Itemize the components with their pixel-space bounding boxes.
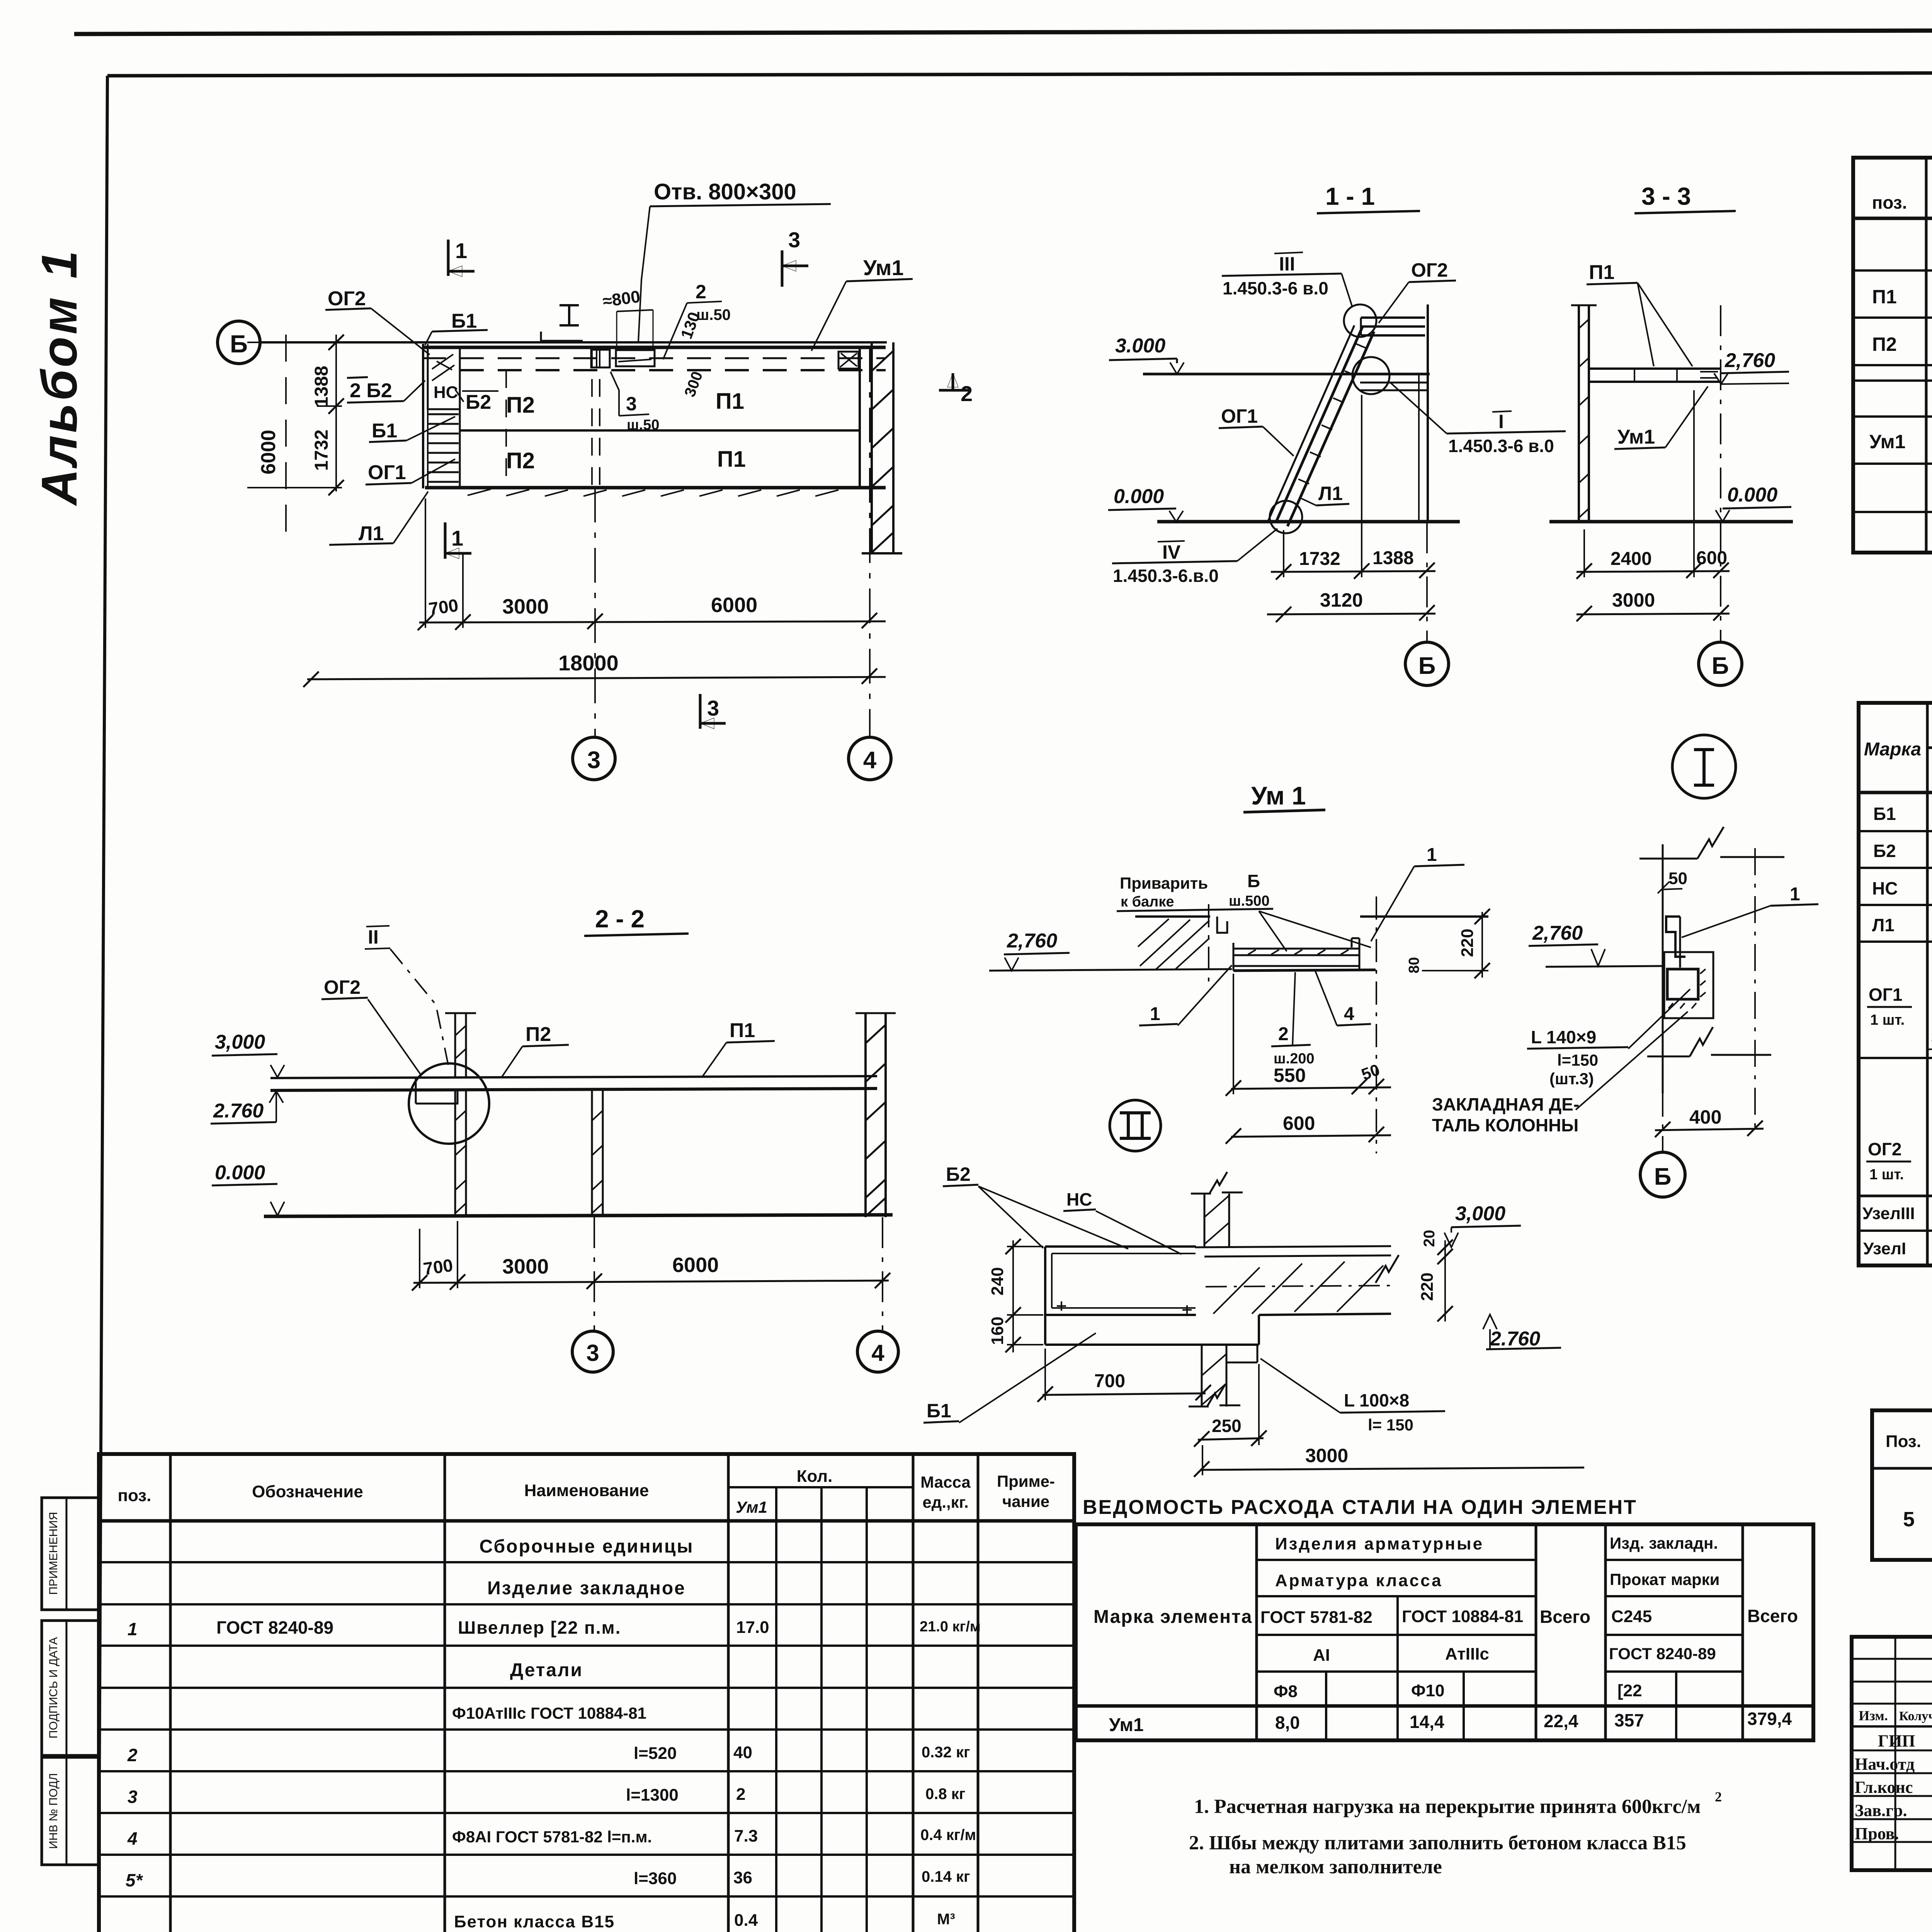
dim 220 80 right — [1481, 912, 1483, 978]
svg-text:3: 3 — [128, 1787, 138, 1807]
platform top — [1361, 318, 1425, 335]
dim 20 220 right — [1444, 1240, 1446, 1321]
svg-text:2400: 2400 — [1611, 549, 1652, 569]
axis circle 3 sec22 — [572, 1331, 613, 1372]
dim 550 50 — [1231, 1087, 1391, 1089]
detail circle I — [1672, 735, 1736, 798]
svg-text:1.450.3-6 в.0: 1.450.3-6 в.0 — [1448, 436, 1554, 456]
svg-text:2 Б2: 2 Б2 — [350, 379, 392, 402]
svg-text:Приварить: Приварить — [1120, 874, 1208, 892]
angle L100x8 piece — [1226, 1345, 1257, 1362]
svg-text:l=360: l=360 — [634, 1869, 677, 1888]
lower column hatched — [1201, 1345, 1203, 1406]
svg-text:УзелIII: УзелIII — [1862, 1204, 1915, 1223]
SECTION11 — [1108, 182, 1566, 685]
svg-text:3: 3 — [788, 228, 800, 252]
svg-text:6000: 6000 — [257, 430, 280, 474]
svg-text:ОГ1: ОГ1 — [368, 461, 406, 484]
svg-text:600: 600 — [1283, 1112, 1315, 1134]
svg-text:Б: Б — [1654, 1163, 1672, 1190]
svg-text:L 140×9: L 140×9 — [1531, 1027, 1596, 1047]
ladder rail left — [1268, 325, 1354, 521]
svg-text:1388: 1388 — [1372, 548, 1414, 568]
svg-text:3,000: 3,000 — [1455, 1202, 1505, 1225]
svg-text:3: 3 — [707, 696, 719, 720]
svg-text:2: 2 — [736, 1785, 745, 1804]
svg-text:160: 160 — [988, 1316, 1007, 1345]
svg-text:П2: П2 — [526, 1023, 551, 1046]
top break line — [1639, 857, 1784, 859]
svg-text:Ум1: Ум1 — [1109, 1715, 1144, 1735]
svg-text:Ум1: Ум1 — [736, 1498, 767, 1516]
svg-text:1. Расчетная нагрузка на перек: 1. Расчетная нагрузка на перекрытие прин… — [1194, 1796, 1701, 1818]
svg-text:ГОСТ 10884-81: ГОСТ 10884-81 — [1402, 1607, 1523, 1626]
section mark 1 top — [447, 240, 450, 276]
svg-text:80: 80 — [1406, 957, 1422, 973]
column lines — [1926, 703, 1929, 1265]
lower landing lines — [1360, 383, 1429, 390]
svg-text:700: 700 — [422, 1255, 454, 1279]
dim line 1732 1388 — [1271, 571, 1435, 572]
svg-text:2 - 2: 2 - 2 — [595, 905, 645, 933]
svg-text:ПРИМЕНЕНИЯ: ПРИМЕНЕНИЯ — [47, 1512, 60, 1595]
NS box — [428, 347, 460, 409]
svg-text:Пров.: Пров. — [1855, 1824, 1899, 1843]
svg-text:НС: НС — [1066, 1189, 1092, 1209]
svg-text:5: 5 — [1903, 1508, 1915, 1531]
svg-text:1: 1 — [455, 238, 467, 263]
vedomost table outer — [1859, 703, 1932, 1265]
svg-text:L 100×8: L 100×8 — [1344, 1390, 1409, 1410]
svg-text:36: 36 — [733, 1868, 752, 1887]
bottom-left table outer — [99, 1454, 1074, 1932]
svg-text:1: 1 — [1790, 884, 1800, 905]
top inner frame line — [107, 72, 1932, 76]
left column above slab — [454, 1013, 456, 1078]
plan top dashed edge — [422, 357, 886, 359]
svg-text:1: 1 — [1150, 1004, 1160, 1024]
embed plate box — [1664, 952, 1713, 1018]
channel Um1 — [1217, 917, 1227, 933]
axis circle 4 sec22 — [857, 1331, 898, 1372]
bottom beam B1 — [1045, 1315, 1259, 1345]
ground line sec22 — [264, 1215, 893, 1216]
header lines — [1927, 747, 1932, 749]
column second line — [1418, 374, 1420, 522]
detail circle top — [1344, 304, 1376, 337]
left stamp box perv primenenija — [42, 1498, 99, 1610]
SECTION22 — [211, 905, 898, 1372]
svg-text:Бетон класса В15: Бетон класса В15 — [454, 1912, 615, 1931]
svg-text:1.450.3-6 в.0: 1.450.3-6 в.0 — [1223, 278, 1328, 298]
svg-text:3: 3 — [587, 747, 600, 774]
svg-text:ИНВ № ПОДЛ: ИНВ № ПОДЛ — [47, 1773, 60, 1849]
beam block hatched — [1135, 915, 1210, 918]
svg-text:Л1: Л1 — [1318, 483, 1343, 504]
section mark 1 bottom — [444, 522, 447, 559]
uzel mark box — [591, 350, 610, 367]
slab soffit — [1259, 1314, 1391, 1315]
svg-text:l=520: l=520 — [634, 1744, 677, 1763]
svg-text:3000: 3000 — [1305, 1445, 1348, 1466]
axis circle B — [218, 321, 260, 364]
stair stringers L1 — [1276, 327, 1362, 522]
svg-text:1 шт.: 1 шт. — [1869, 1167, 1904, 1183]
channel top beam B2 — [1045, 1247, 1196, 1315]
dim 600 — [1231, 1135, 1391, 1137]
svg-text:1 шт.: 1 шт. — [1870, 1012, 1905, 1028]
svg-text:Б2: Б2 — [946, 1163, 971, 1185]
svg-text:Б1: Б1 — [372, 420, 397, 442]
svg-text:1: 1 — [128, 1619, 138, 1639]
svg-text:6000: 6000 — [711, 594, 757, 617]
slab line sec22 — [270, 1076, 877, 1078]
left dim chain 1388 1732 — [335, 335, 337, 492]
svg-text:0.32 кг: 0.32 кг — [922, 1744, 970, 1761]
axis circle B uzel1 — [1640, 1152, 1685, 1197]
axis dashed right — [1754, 848, 1756, 1132]
svg-text:II: II — [368, 926, 379, 948]
svg-text:Ф8АI ГОСТ 5781-82 l=п.м.: Ф8АI ГОСТ 5781-82 l=п.м. — [452, 1828, 652, 1846]
axis line sec33 — [1720, 305, 1721, 642]
VEDELEM — [1859, 675, 1932, 1265]
svg-text:Прокат марки: Прокат марки — [1610, 1570, 1719, 1588]
ground line 1-1 — [1157, 520, 1460, 524]
svg-text:Ум1: Ум1 — [1617, 426, 1655, 448]
svg-text:Изделия арматурные: Изделия арматурные — [1275, 1534, 1484, 1553]
top outer border line — [74, 29, 1932, 34]
svg-text:0.000: 0.000 — [1727, 484, 1777, 506]
row lines — [1859, 830, 1932, 832]
column axis line — [1427, 304, 1429, 522]
svg-text:Марка: Марка — [1864, 739, 1921, 760]
title block outer — [1852, 1637, 1932, 1870]
svg-text:≈800: ≈800 — [602, 287, 641, 311]
svg-text:3,000: 3,000 — [215, 1031, 265, 1053]
svg-text:4: 4 — [871, 1340, 884, 1366]
svg-text:20: 20 — [1421, 1230, 1438, 1247]
svg-text:50: 50 — [1359, 1060, 1382, 1083]
svg-text:ГОСТ 8240-89: ГОСТ 8240-89 — [1609, 1645, 1716, 1663]
svg-text:Б: Б — [1418, 653, 1436, 679]
right wall sec22 — [864, 1013, 867, 1217]
svg-text:УзелI: УзелI — [1863, 1239, 1906, 1258]
svg-text:379,4: 379,4 — [1747, 1709, 1792, 1729]
svg-text:Нач.отд: Нач.отд — [1855, 1755, 1915, 1774]
svg-text:Б: Б — [1712, 653, 1729, 679]
uzel I mark above plan — [560, 305, 579, 325]
svg-text:220: 220 — [1458, 929, 1477, 957]
svg-text:Б2: Б2 — [466, 391, 491, 413]
svg-text:2. Шбы между плитами заполнить: 2. Шбы между плитами заполнить бетоном к… — [1189, 1832, 1686, 1854]
dim line 3120 — [1267, 614, 1435, 614]
svg-text:4: 4 — [1344, 1004, 1354, 1024]
svg-text:Б2: Б2 — [1873, 841, 1896, 861]
svg-text:НС: НС — [434, 383, 458, 402]
UZEL2 — [923, 1100, 1584, 1477]
axis circle B sec33 — [1699, 642, 1742, 685]
svg-text:17.0: 17.0 — [736, 1618, 769, 1637]
slab P1 sec33 — [1589, 369, 1720, 382]
svg-text:I: I — [1498, 411, 1504, 432]
svg-text:к балке: к балке — [1121, 894, 1174, 910]
svg-text:2,760: 2,760 — [1007, 930, 1057, 952]
svg-text:1.450.3-6.в.0: 1.450.3-6.в.0 — [1113, 566, 1219, 586]
upper column hatched — [1204, 1194, 1206, 1247]
header internal lines — [728, 1486, 913, 1488]
column lines — [169, 1454, 172, 1932]
svg-text:Масса: Масса — [920, 1473, 971, 1491]
svg-text:0.000: 0.000 — [215, 1162, 265, 1184]
svg-text:8,0: 8,0 — [1275, 1713, 1300, 1733]
axis line B — [260, 341, 887, 344]
BOTTOMTABLE — [99, 1454, 1074, 1932]
svg-text:700: 700 — [427, 595, 459, 619]
axis drop uzel1 — [1662, 1094, 1663, 1152]
svg-text:ГИП: ГИП — [1878, 1731, 1915, 1750]
SECTION33 — [1549, 182, 1793, 685]
axis drop to circle B — [1426, 522, 1428, 642]
svg-text:Детали: Детали — [510, 1660, 583, 1680]
svg-text:Гл.конс: Гл.конс — [1855, 1778, 1913, 1797]
plan bottom edge — [425, 486, 886, 490]
svg-text:2.760: 2.760 — [213, 1100, 264, 1122]
svg-text:2: 2 — [1278, 1024, 1289, 1044]
svg-text:ОГ2: ОГ2 — [1411, 259, 1448, 281]
svg-text:Марка элемента: Марка элемента — [1094, 1607, 1252, 1627]
left grid verticals — [1895, 1637, 1896, 1870]
svg-text:2,760: 2,760 — [1725, 349, 1775, 372]
svg-text:50: 50 — [1668, 869, 1687, 888]
svg-text:ЗАКЛАДНАЯ ДЕ-: ЗАКЛАДНАЯ ДЕ- — [1432, 1094, 1579, 1114]
svg-text:3000: 3000 — [502, 1255, 549, 1278]
axis drops sec22 — [594, 1217, 595, 1330]
svg-text:ВЕДОМОСТЬ РАСХОДА СТАЛИ НА: ВЕДОМОСТЬ РАСХОДА СТАЛИ НА ОДИН ЭЛЕМЕНТ — [1083, 1496, 1637, 1519]
svg-text:Обозначение: Обозначение — [252, 1482, 363, 1501]
svg-text:Всего: Всего — [1540, 1607, 1590, 1627]
svg-text:0.14 кг: 0.14 кг — [922, 1868, 970, 1885]
svg-text:(шт.3): (шт.3) — [1549, 1070, 1594, 1088]
middle column — [591, 1090, 593, 1216]
svg-text:3: 3 — [586, 1340, 599, 1366]
svg-text:3120: 3120 — [1320, 589, 1363, 611]
svg-text:Ф8: Ф8 — [1274, 1682, 1298, 1701]
svg-text:Ум1: Ум1 — [1869, 431, 1905, 452]
slab top line — [1204, 1255, 1391, 1257]
svg-text:Арматура класса: Арматура класса — [1275, 1571, 1443, 1590]
svg-text:7.3: 7.3 — [734, 1827, 758, 1845]
svg-text:250: 250 — [1212, 1416, 1242, 1436]
svg-text:300: 300 — [681, 369, 706, 399]
stair enclosure walls — [422, 344, 424, 488]
svg-text:Кол.: Кол. — [797, 1467, 833, 1486]
svg-text:4: 4 — [863, 747, 877, 774]
svg-text:ПОДПИСЬ И ДАТА: ПОДПИСЬ И ДАТА — [47, 1637, 60, 1739]
svg-text:АтIIIс: АтIIIс — [1445, 1645, 1489, 1663]
svg-text:Ум1: Ум1 — [863, 255, 904, 280]
svg-text:2: 2 — [1715, 1789, 1722, 1804]
svg-text:357: 357 — [1614, 1710, 1644, 1730]
svg-text:Б1: Б1 — [927, 1400, 951, 1422]
left stamp box podpis i data — [42, 1621, 99, 1755]
left dim 6000 — [285, 335, 287, 539]
svg-text:21.0 кг/м: 21.0 кг/м — [920, 1619, 981, 1635]
svg-text:Л1: Л1 — [1872, 915, 1895, 935]
svg-text:1732: 1732 — [311, 430, 332, 471]
svg-text:ТАЛЬ КОЛОННЫ: ТАЛЬ КОЛОННЫ — [1432, 1115, 1578, 1135]
TITLEBLOCK — [1852, 1637, 1932, 1918]
svg-text:поз.: поз. — [118, 1486, 151, 1505]
axis 4 drop line — [869, 347, 871, 737]
svg-text:П1: П1 — [1589, 261, 1614, 284]
left column below slab — [454, 1090, 456, 1216]
svg-text:Поз.: Поз. — [1886, 1432, 1921, 1451]
section mark 2 right — [939, 389, 969, 392]
PLAN — [218, 179, 973, 780]
svg-text:0.4: 0.4 — [734, 1911, 758, 1930]
plan top edge — [422, 346, 886, 349]
svg-text:Изделие закладное: Изделие закладное — [487, 1578, 686, 1599]
svg-text:ГОСТ 5781-82: ГОСТ 5781-82 — [1260, 1608, 1372, 1627]
svg-text:3: 3 — [626, 393, 637, 415]
VEDDET — [1872, 1367, 1932, 1660]
svg-text:ОГ2: ОГ2 — [324, 976, 361, 998]
left stamp box inv no podl — [42, 1757, 99, 1865]
svg-text:АI: АI — [1313, 1646, 1330, 1665]
plan slab top dashed line — [460, 369, 886, 371]
section mark 3 top — [781, 250, 784, 287]
svg-text:18000: 18000 — [558, 651, 619, 675]
STEELTABLE — [1076, 1496, 1813, 1878]
svg-text:П2: П2 — [506, 393, 535, 418]
svg-text:40: 40 — [733, 1743, 752, 1762]
dim line sec22 — [413, 1281, 889, 1283]
steel verticals — [1255, 1524, 1258, 1740]
svg-text:Б1: Б1 — [1873, 804, 1896, 824]
axis 3 drop line — [594, 488, 596, 737]
svg-text:600: 600 — [1696, 548, 1727, 568]
floor line right — [1195, 1246, 1391, 1247]
svg-text:ОГ1: ОГ1 — [1221, 405, 1258, 427]
svg-text:поз.: поз. — [1872, 192, 1907, 213]
svg-text:М³: М³ — [937, 1911, 955, 1928]
svg-text:550: 550 — [1274, 1065, 1306, 1086]
svg-text:240: 240 — [988, 1267, 1007, 1295]
svg-text:ОГ2: ОГ2 — [328, 287, 366, 310]
lower break line — [1647, 1055, 1771, 1056]
slab joint axis3 dashed pair — [591, 350, 593, 488]
svg-text:2.760: 2.760 — [1490, 1328, 1540, 1350]
svg-text:l=150: l=150 — [1557, 1051, 1598, 1069]
svg-text:2: 2 — [696, 281, 706, 303]
svg-text:l= 150: l= 150 — [1368, 1416, 1413, 1434]
slab mid line — [460, 429, 860, 432]
svg-text:III: III — [1279, 253, 1295, 275]
svg-text:Л1: Л1 — [359, 522, 384, 545]
detail circle II mark — [1110, 1100, 1161, 1151]
svg-text:на мелком заполнителе: на мелком заполнителе — [1229, 1856, 1442, 1878]
plan bottom hatch ticks — [468, 489, 838, 496]
left grid horizontals — [1852, 1658, 1932, 1660]
svg-text:2: 2 — [127, 1745, 138, 1765]
spec table grid — [1853, 158, 1932, 553]
bottom dim chain row1 — [419, 621, 886, 622]
UM1DETAIL — [989, 781, 1490, 1153]
svg-text:[22: [22 — [1617, 1681, 1642, 1700]
svg-text:ед.,кг.: ед.,кг. — [922, 1493, 968, 1511]
svg-text:Ум 1: Ум 1 — [1251, 781, 1306, 810]
svg-text:Изд. закладн.: Изд. закладн. — [1610, 1534, 1718, 1552]
dim 240 160 left — [1012, 1240, 1014, 1352]
svg-text:П2: П2 — [1872, 333, 1897, 355]
axis circle 3 — [573, 737, 615, 780]
channel lip side view — [1666, 917, 1685, 957]
detail circle bottom — [1270, 501, 1302, 533]
svg-text:Б: Б — [230, 330, 248, 358]
svg-text:1 - 1: 1 - 1 — [1325, 182, 1375, 210]
svg-text:3.000: 3.000 — [1115, 335, 1165, 357]
svg-text:Швеллер [22 п.м.: Швеллер [22 п.м. — [458, 1617, 621, 1638]
svg-text:Сборочные единицы: Сборочные единицы — [480, 1536, 694, 1557]
row lines — [99, 1561, 1074, 1563]
svg-text:1388: 1388 — [311, 366, 332, 407]
svg-text:Б1: Б1 — [451, 310, 477, 332]
svg-text:220: 220 — [1418, 1272, 1437, 1301]
svg-text:Наименование: Наименование — [524, 1481, 649, 1500]
svg-text:П1: П1 — [717, 447, 746, 472]
svg-text:ш.500: ш.500 — [1229, 893, 1270, 909]
svg-text:22,4: 22,4 — [1544, 1711, 1578, 1731]
axis circle B sec11 — [1405, 642, 1449, 685]
svg-text:чание: чание — [1002, 1492, 1049, 1510]
svg-text:Всего: Всего — [1747, 1606, 1798, 1626]
slab joint dashed line left — [505, 370, 507, 488]
axis of beam dashdot — [1208, 904, 1209, 989]
detail circle mid — [1352, 357, 1389, 394]
svg-text:Колуч: Колуч — [1899, 1709, 1932, 1723]
svg-text:400: 400 — [1689, 1106, 1721, 1128]
svg-text:Альбом 1: Альбом 1 — [31, 248, 87, 506]
slab hatch — [1213, 1262, 1383, 1314]
svg-text:П1: П1 — [730, 1019, 755, 1042]
svg-text:П1: П1 — [716, 389, 744, 414]
UZEL1 — [1432, 735, 1818, 1197]
wall left hatched — [1578, 305, 1580, 522]
detail circle II — [409, 1063, 489, 1144]
svg-text:Зав.гр.: Зав.гр. — [1855, 1801, 1907, 1820]
leaders from B to channel — [1259, 911, 1287, 951]
svg-text:5*: 5* — [126, 1870, 143, 1890]
svg-text:2,760: 2,760 — [1532, 922, 1583, 944]
svg-text:3000: 3000 — [502, 595, 549, 618]
svg-text:НС: НС — [1872, 878, 1898, 898]
svg-text:0.8 кг: 0.8 кг — [925, 1786, 965, 1803]
svg-text:Отв. 800×300: Отв. 800×300 — [654, 179, 796, 204]
svg-text:4: 4 — [127, 1828, 138, 1849]
svg-text:Ф10: Ф10 — [1411, 1681, 1445, 1700]
left frame line — [99, 76, 107, 1932]
svg-text:ш.50: ш.50 — [627, 417, 660, 433]
svg-text:П1: П1 — [1872, 286, 1897, 308]
SPECTABLE — [1853, 108, 1932, 553]
svg-text:l=1300: l=1300 — [626, 1786, 679, 1804]
steel table outer — [1076, 1524, 1813, 1740]
svg-text:6000: 6000 — [672, 1253, 719, 1277]
svg-text:Ф10АтIIIс ГОСТ 10884-81: Ф10АтIIIс ГОСТ 10884-81 — [452, 1704, 646, 1722]
svg-text:ГОСТ 8240-89: ГОСТ 8240-89 — [216, 1617, 333, 1638]
opening rect — [616, 350, 655, 366]
svg-text:Изм.: Изм. — [1859, 1708, 1888, 1723]
